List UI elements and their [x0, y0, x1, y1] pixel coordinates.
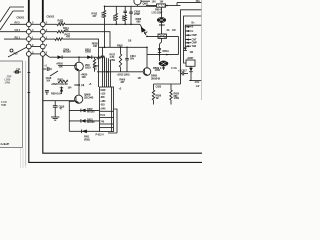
resistor R615 [97, 56, 105, 59]
wire [4, 38, 26, 40]
connector pin row 3 [15, 35, 48, 41]
wire [189, 80, 202, 82]
label R610 [56, 62, 76, 69]
capacitor C617 [178, 69, 188, 76]
wire row2 [45, 31, 57, 33]
terminal arrow CMP [185, 41, 197, 45]
svg-text:1.3/: 1.3/ [196, 84, 200, 88]
terminal arrow CMP [185, 33, 197, 37]
wire [108, 58, 110, 87]
svg-text:R624 104: R624 104 [51, 92, 62, 96]
grey scan line [25, 61, 27, 166]
wire diag [50, 71, 58, 76]
diode D614 [87, 55, 92, 59]
svg-text:+240: +240 [100, 106, 106, 110]
svg-text:12K: 12K [82, 75, 87, 79]
svg-text:+115: +115 [100, 92, 106, 96]
wire [0, 31, 26, 33]
label C618 [46, 76, 52, 83]
svg-text:1948: 1948 [100, 88, 106, 92]
resistor R611 [93, 57, 99, 72]
terminal arrow TH8 [185, 44, 196, 48]
svg-text:CMP: CMP [192, 33, 198, 37]
node [101, 56, 103, 58]
svg-text:1W: 1W [160, 1, 164, 4]
wire bus inner [43, 56, 202, 153]
transistor Q607 [138, 55, 151, 80]
wire [104, 24, 106, 47]
wire [42, 0, 44, 22]
wire [177, 3, 202, 6]
svg-text:R621: R621 [58, 78, 64, 82]
svg-text:50V: 50V [130, 56, 135, 60]
svg-text:270P: 270P [134, 12, 140, 16]
wire [106, 58, 108, 87]
wire [42, 22, 44, 57]
diode D609 [69, 118, 99, 125]
svg-text:+C607: +C607 [187, 56, 195, 60]
diode D606 [189, 66, 193, 80]
wire [43, 100, 75, 102]
svg-text:P-012 4: P-012 4 [96, 133, 105, 137]
svg-text:10V: 10V [152, 1, 157, 4]
wire [184, 16, 203, 63]
svg-text:C 1%: C 1% [171, 66, 178, 70]
svg-text:(R10): (R10) [84, 138, 90, 142]
wire row1 [45, 23, 57, 25]
diode D602 [140, 24, 147, 35]
diode D611 [69, 130, 99, 134]
resistor R617 [110, 47, 122, 72]
svg-text:R623: R623 [75, 83, 81, 87]
connector pin row 1 [15, 21, 48, 27]
svg-text:Q601: Q601 [143, 2, 149, 6]
label TDF [5, 75, 12, 85]
scan streaks [21, 61, 26, 168]
capacitor C614 [43, 64, 52, 71]
wire [102, 47, 104, 87]
svg-text:MA165: MA165 [87, 120, 95, 124]
IC C606 box [186, 60, 195, 66]
wire [147, 36, 178, 54]
resistor R616 box [157, 4, 166, 7]
svg-text:1/2W: 1/2W [155, 68, 161, 72]
transistor Q603 (top view) [159, 61, 169, 70]
transistor Q606 [75, 57, 92, 71]
capacitor C609 [123, 6, 127, 24]
svg-text:1/4W: 1/4W [174, 96, 180, 100]
svg-text:4.5V: 4.5V [195, 80, 200, 84]
wire bus outer [29, 56, 202, 162]
box pin labels [100, 88, 106, 123]
svg-text:TH8: TH8 [192, 44, 197, 48]
node [104, 47, 106, 49]
fuse F25 [10, 49, 18, 56]
resistor R621 [58, 78, 69, 83]
wire row3 [45, 38, 55, 40]
capacitor C613 [125, 47, 136, 72]
wire [108, 109, 117, 133]
svg-text:MA165: MA165 [87, 110, 95, 114]
capacitor C616 [53, 101, 65, 117]
svg-text:17P: 17P [16, 67, 21, 71]
svg-text:15A: 15A [196, 0, 201, 3]
connector pin row 2 [15, 28, 48, 34]
transistor Q608 [75, 93, 94, 104]
svg-text:B: B [192, 25, 194, 29]
svg-text:216/8: 216/8 [85, 50, 91, 54]
wire [10, 23, 26, 25]
diode to ground [184, 48, 187, 51]
wire [28, 22, 30, 57]
resistor R414 [57, 26, 69, 33]
resistor R602 [103, 6, 105, 24]
diode D608 [60, 87, 63, 95]
resistor R473 [57, 19, 65, 26]
svg-text:2N1642: 2N1642 [151, 76, 160, 80]
wire [154, 79, 181, 84]
wire [8, 47, 27, 57]
capacitor C610 [129, 6, 140, 24]
wire row5 to diode [45, 54, 50, 57]
diode D613 [158, 38, 169, 61]
wire [146, 5, 157, 7]
node [159, 54, 161, 56]
node [116, 24, 118, 26]
svg-text:TMB: TMB [1, 103, 6, 107]
svg-text:CMP: CMP [192, 41, 198, 45]
wire [78, 71, 80, 95]
wire [28, 0, 30, 22]
svg-text:(H): (H) [81, 83, 84, 87]
svg-text:R618: R618 [159, 23, 165, 27]
svg-text:10K: 10K [59, 65, 64, 69]
wire [98, 47, 100, 87]
resistor P477 [55, 32, 71, 40]
node [78, 56, 80, 58]
left block outline [0, 61, 22, 148]
resistor R626 [152, 84, 161, 105]
diode D607 [69, 107, 99, 114]
svg-text:+1 C617: +1 C617 [178, 69, 187, 73]
svg-text:2+4k.2P: 2+4k.2P [1, 142, 10, 146]
svg-text:CN202: CN202 [47, 16, 55, 19]
wire [65, 32, 110, 48]
transistor Q601 [134, 0, 150, 6]
terminal arrow B [185, 25, 193, 29]
svg-text:RB1A: RB1A [163, 49, 170, 53]
transistor Q602 (top view) [157, 7, 166, 23]
wire mid bus [99, 46, 148, 48]
svg-text:1/4W: 1/4W [5, 81, 11, 85]
svg-text:R605: R605 [117, 43, 123, 47]
capacitor C620 [45, 91, 49, 96]
svg-text:.695: .695 [100, 95, 105, 99]
node [146, 36, 148, 38]
wire [146, 47, 148, 54]
tick [28, 72, 31, 74]
svg-text:3A: 3A [167, 28, 170, 32]
wire [69, 101, 74, 131]
node [166, 5, 168, 7]
terminal arrow IL [185, 29, 194, 33]
svg-text:+C612 (16V): +C612 (16V) [117, 72, 130, 76]
svg-text:1815: 1815 [85, 66, 91, 70]
wire [65, 23, 140, 25]
connector pin row 5 [26, 50, 47, 56]
ground [51, 117, 59, 120]
wire [63, 39, 99, 47]
resistor R604 [115, 6, 117, 24]
wire top bus [105, 5, 157, 7]
wire [147, 54, 178, 56]
page edge shading [200, 0, 202, 100]
wire [97, 71, 143, 73]
terminal arrow CNT [185, 37, 197, 41]
wire [104, 57, 106, 72]
svg-text:CN201: CN201 [17, 17, 25, 20]
svg-text:C623: C623 [156, 84, 162, 88]
svg-text:+R622 C611 1M: +R622 C611 1M [51, 82, 68, 86]
left block shade [0, 62, 22, 148]
component 17P [14, 67, 22, 73]
label mid [1, 100, 7, 107]
svg-text:2SC945: 2SC945 [84, 96, 94, 100]
resistor R625 [170, 84, 180, 105]
svg-text:-015: -015 [100, 102, 105, 106]
svg-text:+480: +480 [100, 99, 106, 103]
wire [185, 25, 202, 47]
node [104, 6, 106, 8]
svg-text:P-01: P-01 [100, 113, 106, 117]
wire [166, 5, 181, 7]
wire [0, 11, 24, 30]
connector pin row 4 [26, 43, 47, 49]
wire [0, 7, 24, 22]
wire [181, 10, 203, 79]
wire [104, 57, 106, 87]
svg-text:MA165: MA165 [63, 50, 71, 54]
connector box T601 [100, 87, 114, 132]
resistor R619 box [158, 23, 166, 39]
wire [110, 60, 112, 87]
tick [28, 92, 31, 94]
diode D604 [50, 47, 97, 59]
